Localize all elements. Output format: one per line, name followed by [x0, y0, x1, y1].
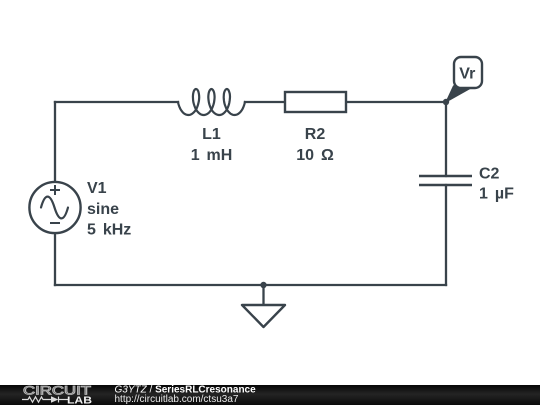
V1 sine wave — [41, 197, 68, 219]
V1 minus sign — [50, 222, 60, 224]
wire L1 to R2 — [245, 101, 285, 103]
logo diode triangle — [51, 396, 58, 402]
inductor L1 coil — [178, 89, 245, 115]
footer bar — [0, 385, 540, 405]
svg-text:C2: C2 — [479, 166, 500, 183]
node junction dot at ground — [260, 282, 266, 288]
resistor R2 body — [285, 92, 346, 112]
svg-text:LAB: LAB — [67, 395, 92, 405]
wire right vertical (node Vr to C2 top) — [445, 102, 447, 176]
node junction dot at Vr — [443, 99, 449, 105]
voltage source V1 circle — [29, 182, 80, 233]
svg-text:V1: V1 — [87, 180, 107, 197]
capacitor C2 top plate — [419, 175, 472, 178]
wire R2 to node Vr — [346, 101, 446, 103]
ground stub wire — [262, 285, 264, 305]
svg-text:Vr: Vr — [459, 66, 475, 83]
ground triangle — [242, 305, 285, 327]
svg-text:10 Ω: 10 Ω — [296, 147, 334, 164]
Vr flag box — [454, 57, 482, 88]
capacitor C2 bottom plate — [419, 184, 472, 187]
wire C2 bottom to bottom-right corner — [445, 185, 447, 285]
Vr flag pointer — [446, 86, 471, 102]
svg-text:1 µF: 1 µF — [479, 186, 514, 203]
svg-text:5 kHz: 5 kHz — [87, 222, 131, 239]
svg-text:R2: R2 — [305, 126, 326, 143]
svg-text:sine: sine — [87, 201, 119, 218]
wire bottom horizontal — [55, 284, 446, 286]
logo wire-resistor-diode line — [22, 397, 68, 403]
svg-text:L1: L1 — [202, 126, 221, 143]
wire left vertical bottom (V1 to corner) — [54, 233, 56, 285]
wire top-left horizontal (V1 top to L1) — [55, 101, 178, 103]
wire left vertical top (corner to V1) — [54, 102, 56, 182]
svg-text:http://circuitlab.com/ctsu3a7: http://circuitlab.com/ctsu3a7 — [115, 394, 239, 405]
svg-text:1 mH: 1 mH — [191, 147, 233, 164]
V1 plus sign — [50, 185, 60, 195]
